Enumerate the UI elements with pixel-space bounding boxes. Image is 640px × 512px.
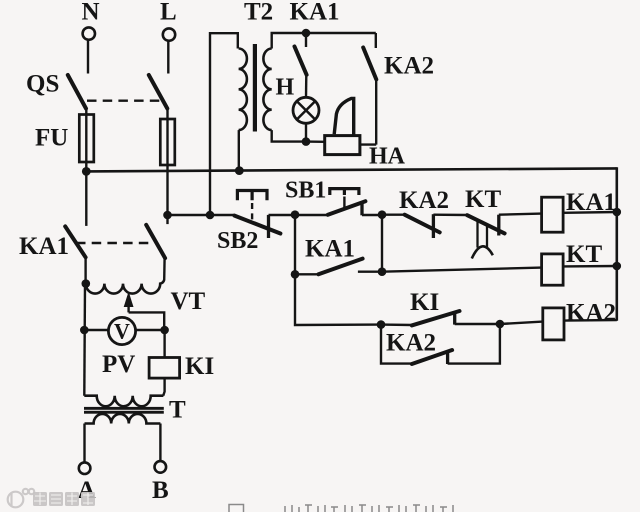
wire alarm branch upper xyxy=(375,33,377,48)
transformer T core bar lower xyxy=(84,411,164,414)
pushbutton SB2 blade xyxy=(235,216,281,234)
terminal L xyxy=(163,28,175,40)
wire KI right lead xyxy=(455,323,500,325)
svg-text:SB2: SB2 xyxy=(217,228,258,254)
lamp H cross xyxy=(297,101,315,119)
wire bus-L down to KA1 pole2 xyxy=(166,215,168,224)
wire T secondary right down xyxy=(159,424,161,462)
svg-text:KT: KT xyxy=(566,241,602,268)
pushbutton SB1 cap xyxy=(330,189,359,195)
bell HA body xyxy=(325,136,360,155)
wire through fuse FU2 xyxy=(166,109,168,216)
wire L to QS xyxy=(167,41,169,74)
caption (clipped at page bottom) xyxy=(229,505,453,512)
relay contact KA2 NC fixed bar xyxy=(432,214,435,238)
wire T2 secondary bottom xyxy=(272,130,306,142)
bell HA horn xyxy=(334,98,354,135)
wire KA1 pole2 to VT right end xyxy=(163,258,166,280)
lamp H body xyxy=(293,97,319,123)
junction dot latch right xyxy=(378,267,387,276)
wire bus N (horizontal) xyxy=(85,168,617,171)
svg-text:KA1: KA1 xyxy=(305,236,355,263)
wire HA right lead xyxy=(360,143,376,145)
wire lamp to bottom node xyxy=(305,123,307,141)
current relay coil KI body xyxy=(149,358,180,379)
svg-text:KI: KI xyxy=(410,289,439,316)
wire KA1 pole1 to VT xyxy=(84,257,86,283)
wire KA2 coil to rail xyxy=(564,319,617,322)
fuse FU1 body xyxy=(79,115,94,163)
wire HA left lead xyxy=(306,140,325,143)
junction dot bus-N / T2 primary xyxy=(235,166,244,175)
transformer T2 core xyxy=(253,44,257,132)
svg-text:KA2: KA2 xyxy=(386,330,436,357)
transformer T2 secondary winding xyxy=(263,49,271,131)
relay contact KA1 pole2 blade xyxy=(146,225,165,258)
switch QS pole 1 blade xyxy=(68,75,86,109)
wire latch node down to KI row xyxy=(295,274,381,325)
pushbutton SB1 plunger link xyxy=(343,197,345,208)
switch QS mechanical link (dashed) xyxy=(87,99,163,101)
wire lamp branch upper xyxy=(305,33,307,47)
watermark logo xyxy=(8,489,35,508)
svg-text:KT: KT xyxy=(465,186,501,213)
switch QS pole 2 blade xyxy=(149,75,168,109)
svg-text:VT: VT xyxy=(171,288,206,315)
wire PV right down to KI coil xyxy=(163,330,165,358)
wire latch right lead xyxy=(358,271,382,273)
relay coil KA1 body xyxy=(542,197,564,232)
relay coil KA2 body xyxy=(543,308,564,340)
junction dot PV right xyxy=(160,326,169,335)
transformer T primary winding xyxy=(84,396,163,407)
pushbutton SB1 fixed contact bar xyxy=(360,202,363,216)
wire bus-N down to KA1 pole1 xyxy=(85,171,87,226)
junction dot KI row right xyxy=(496,320,505,329)
svg-text:H: H xyxy=(276,75,295,101)
svg-text:HA: HA xyxy=(369,144,406,170)
svg-text:L: L xyxy=(160,0,177,26)
wire KA2 branch left drop xyxy=(381,325,412,364)
wire KA2 branch right rise xyxy=(448,324,500,364)
svg-text:T: T xyxy=(169,397,186,424)
relay contact KA2 parallel fixed bar xyxy=(446,351,449,364)
relay contact KA2 blade (alarm) xyxy=(363,48,376,80)
junction dot lamp branch top xyxy=(302,29,311,38)
svg-text:N: N xyxy=(82,0,100,26)
wire latch to KT coil xyxy=(382,268,542,272)
wire node1 to SB1 xyxy=(295,214,328,216)
wire KA2 to KT contact xyxy=(433,213,467,216)
wire contact to lamp xyxy=(305,75,308,98)
time relay KT delay plunger lines xyxy=(478,221,488,248)
junction dot node1 xyxy=(291,210,300,219)
svg-text:KA2: KA2 xyxy=(384,53,434,80)
relay contact KA1 self-hold blade xyxy=(319,259,363,275)
wire alarm contact down xyxy=(375,79,377,144)
svg-text:KA1: KA1 xyxy=(19,233,69,260)
wire node2 to KA2 contact xyxy=(382,213,405,215)
wire bus L (control feed) xyxy=(168,214,235,216)
transformer T2 primary winding xyxy=(239,49,247,131)
wire T2 primary bottom to bus-N xyxy=(238,130,240,170)
wire node1 down to latch xyxy=(294,215,296,274)
svg-text:PV: PV xyxy=(102,351,135,378)
wire T2 primary top feed xyxy=(210,33,238,215)
terminal A xyxy=(79,462,91,474)
wire KT contact to KA1 coil xyxy=(499,214,542,215)
wire SB1 to node2 xyxy=(362,214,382,216)
pushbutton SB1 blade xyxy=(328,201,366,215)
junction dot latch left xyxy=(291,270,300,279)
time relay KT delay cup xyxy=(472,246,493,258)
relay coil KT body xyxy=(542,254,564,285)
pushbutton SB2 fixed contact bar xyxy=(267,215,270,238)
wire PV row xyxy=(84,329,164,331)
relay contact KA1 blade (lamp) xyxy=(295,47,307,75)
svg-text:QS: QS xyxy=(26,71,59,98)
wire N to QS xyxy=(87,40,89,74)
wire KI row to KA2 coil xyxy=(500,322,543,324)
transformer T core bar upper xyxy=(84,407,164,410)
voltmeter PV body xyxy=(108,317,135,344)
junction dot node2 xyxy=(378,210,387,219)
current relay contact KI fixed bar xyxy=(453,312,456,325)
svg-text:KA2: KA2 xyxy=(566,300,616,327)
wire KT coil to rail xyxy=(563,265,617,268)
time relay contact KT NC blade xyxy=(467,215,504,233)
fuse FU2 body xyxy=(160,119,175,165)
svg-text:KA2: KA2 xyxy=(399,187,449,214)
terminal B xyxy=(155,461,167,473)
junction dot PV left xyxy=(80,326,89,335)
autotransformer VT wiper arrow stem xyxy=(127,296,129,312)
svg-text:T2: T2 xyxy=(244,0,273,26)
transformer T secondary winding xyxy=(85,414,161,424)
junction dot rail / KA1 coil xyxy=(613,208,622,217)
wire left branch down xyxy=(83,284,86,396)
autotransformer VT wiper arrow head xyxy=(124,292,134,308)
junction dot bus-L / T2 feed xyxy=(206,211,215,220)
junction dot bus-L / FU2 xyxy=(163,211,172,220)
junction dot rail / KT coil xyxy=(613,262,622,271)
relay contact KA1 pole1 blade xyxy=(65,226,85,257)
wire right rail (vertical) xyxy=(615,167,618,321)
wire T2 secondary top rail xyxy=(272,33,376,49)
wire KI left lead xyxy=(381,323,412,326)
wire node2 down xyxy=(381,215,383,272)
relay contact KA2 NC blade xyxy=(405,215,440,233)
autotransformer VT winding xyxy=(86,280,164,294)
pushbutton SB2 plunger link (dashed) xyxy=(251,203,253,220)
watermark text xyxy=(33,492,95,506)
relay contact KA2 parallel blade xyxy=(412,350,452,364)
svg-text:B: B xyxy=(152,477,169,504)
junction dot lamp bottom xyxy=(302,137,311,146)
pushbutton SB2 cap xyxy=(237,191,267,201)
terminal N xyxy=(83,27,95,39)
junction dot bus-N / FU1 xyxy=(82,167,91,176)
current relay contact KI blade xyxy=(412,311,460,325)
wire KI coil down to T xyxy=(163,378,164,396)
wire KA1 coil to rail xyxy=(563,211,617,214)
svg-text:KI: KI xyxy=(185,353,214,380)
wire SB2 to node1 xyxy=(269,214,296,216)
relay KA1 poles link (dashed) xyxy=(76,242,151,244)
svg-text:FU: FU xyxy=(35,125,68,152)
wire latch left lead xyxy=(295,273,319,275)
junction dot KI row left xyxy=(377,320,386,329)
svg-text:KA1: KA1 xyxy=(290,0,340,26)
svg-text:SB1: SB1 xyxy=(285,178,326,204)
junction dot VT left end xyxy=(82,279,91,288)
wire wiper elbow xyxy=(129,312,165,330)
wire T secondary left down xyxy=(83,424,85,463)
wire through fuse FU1 xyxy=(85,109,87,171)
svg-text:V: V xyxy=(114,319,130,344)
time relay contact KT fixed bar xyxy=(497,215,500,236)
